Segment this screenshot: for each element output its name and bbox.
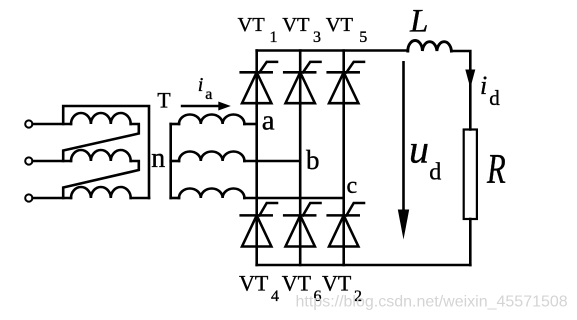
svg-text:u: u	[409, 127, 429, 172]
svg-text:VT: VT	[282, 14, 310, 36]
svg-text:T: T	[157, 88, 171, 113]
svg-text:i: i	[480, 71, 487, 100]
svg-text:a: a	[262, 104, 275, 136]
svg-text:L: L	[409, 3, 428, 39]
svg-text:d: d	[429, 160, 441, 186]
svg-text:R: R	[486, 145, 506, 192]
svg-text:3: 3	[313, 29, 321, 46]
svg-text:n: n	[151, 143, 165, 174]
svg-text:VT: VT	[239, 271, 269, 296]
svg-text:d: d	[489, 86, 500, 110]
svg-text:1: 1	[270, 29, 278, 46]
svg-text:c: c	[347, 173, 358, 199]
svg-text:b: b	[306, 145, 320, 175]
svg-text:i: i	[198, 74, 204, 96]
svg-text:VT: VT	[326, 14, 354, 36]
svg-text:4: 4	[271, 288, 279, 305]
svg-text:a: a	[205, 86, 212, 103]
svg-text:https://blog.csdn.net/weixin_4: https://blog.csdn.net/weixin_45571508	[296, 293, 568, 310]
svg-text:5: 5	[359, 29, 367, 46]
svg-text:VT: VT	[238, 14, 266, 36]
svg-text:VT: VT	[282, 271, 312, 296]
svg-text:VT: VT	[322, 271, 352, 296]
